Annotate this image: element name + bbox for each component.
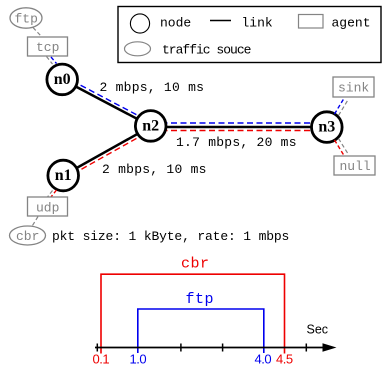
legend agent icon xyxy=(299,15,324,29)
time axis xyxy=(95,347,324,349)
svg-text:agent: agent xyxy=(332,16,371,31)
svg-text:pkt size: 1 kByte, rate: 1 mbp: pkt size: 1 kByte, rate: 1 mbps xyxy=(52,229,289,244)
svg-text:n1: n1 xyxy=(55,167,72,184)
wire n3-null gray xyxy=(339,139,349,155)
cbr interval box xyxy=(101,274,285,353)
svg-text:udp: udp xyxy=(36,201,59,216)
svg-text:link: link xyxy=(242,16,273,31)
node n3 xyxy=(312,112,343,143)
svg-text:n3: n3 xyxy=(318,119,335,136)
axis tick 2 xyxy=(180,344,182,352)
ftp traffic source xyxy=(10,8,42,28)
flow n2-n3 red xyxy=(152,130,326,132)
svg-text:sink: sink xyxy=(338,81,369,96)
svg-text:1.7 mbps, 20 ms: 1.7 mbps, 20 ms xyxy=(176,135,297,150)
node n2 xyxy=(135,111,166,142)
node n1 xyxy=(48,160,79,191)
axis tick 0 xyxy=(96,344,98,352)
sink agent xyxy=(333,77,374,97)
axis tick 3 xyxy=(222,344,224,352)
ftp interval box xyxy=(138,309,264,353)
svg-text:2 mbps, 10 ms: 2 mbps, 10 ms xyxy=(102,162,207,177)
svg-text:1.0: 1.0 xyxy=(130,352,147,367)
wire ftp-tcp xyxy=(33,28,41,37)
wire n3-sink gray xyxy=(339,99,349,116)
tcp agent xyxy=(28,37,68,56)
udp agent xyxy=(28,197,68,216)
flow n1-n2 red xyxy=(65,130,152,179)
svg-text:4.0: 4.0 xyxy=(255,352,272,367)
cbr traffic source xyxy=(10,226,46,245)
link n2-n3 xyxy=(151,126,327,129)
svg-text:Sec: Sec xyxy=(307,323,329,337)
wire tcp-n0 gray xyxy=(47,57,53,65)
link n0-n2 xyxy=(62,79,151,126)
legend node icon xyxy=(130,14,149,33)
legend box xyxy=(118,7,381,63)
flow tcp-n0 blue xyxy=(51,57,57,64)
flow n3-sink blue xyxy=(335,98,345,115)
svg-text:node: node xyxy=(160,16,191,31)
legend link icon xyxy=(210,20,231,22)
svg-text:4.5: 4.5 xyxy=(276,352,293,367)
svg-text:2 mbps, 10 ms: 2 mbps, 10 ms xyxy=(100,80,205,95)
null agent xyxy=(334,156,375,175)
wire udp-cbr xyxy=(33,217,39,226)
svg-text:cbr: cbr xyxy=(181,256,210,273)
legend traffic source icon xyxy=(125,42,151,56)
svg-text:n0: n0 xyxy=(54,71,71,88)
svg-text:null: null xyxy=(340,159,371,174)
node n0 xyxy=(47,64,78,95)
flow n1-udp red xyxy=(51,190,57,197)
flow n0-n2 blue xyxy=(64,76,153,123)
link n1-n2 xyxy=(63,127,151,176)
svg-text:cbr: cbr xyxy=(16,229,39,244)
svg-text:0.1: 0.1 xyxy=(93,352,110,367)
flow n3-null red xyxy=(335,140,345,156)
wire n1-udp gray xyxy=(48,191,53,198)
svg-text:n2: n2 xyxy=(142,118,159,135)
svg-text:traffic souce: traffic souce xyxy=(162,43,251,58)
svg-text:tcp: tcp xyxy=(36,40,59,55)
axis tick 5 xyxy=(305,344,307,352)
flow n2-n3 blue xyxy=(152,122,326,124)
axis arrowhead xyxy=(323,343,337,352)
svg-text:ftp: ftp xyxy=(186,291,215,308)
svg-text:ftp: ftp xyxy=(15,12,38,27)
